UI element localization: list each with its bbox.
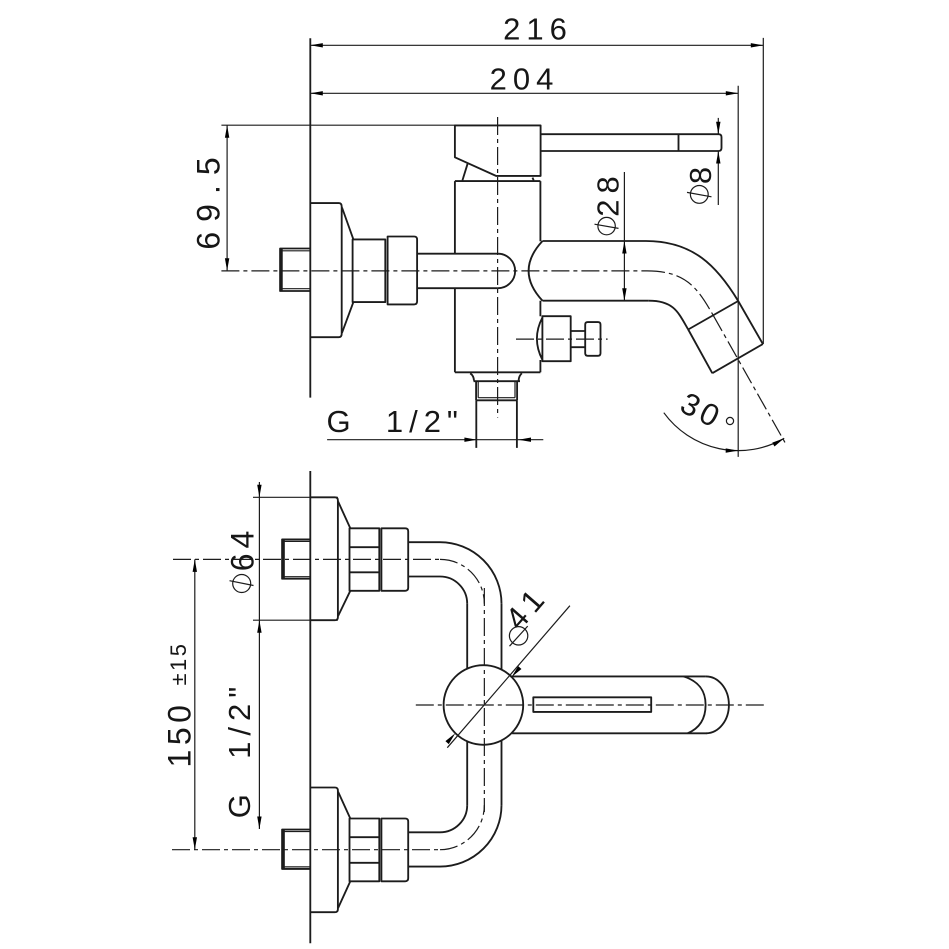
connecting rod to body <box>417 254 498 289</box>
lever handle bar <box>541 134 722 151</box>
bottom tube inner bend <box>440 805 467 832</box>
outlet tube <box>476 400 517 448</box>
spout joint line <box>688 301 738 330</box>
dimension phi8 line lower <box>717 151 719 205</box>
spout centerline slant extension <box>713 315 786 444</box>
top tube outer bend <box>440 542 502 604</box>
30 degree arrow at slant <box>772 436 785 446</box>
top fitting nipple <box>282 539 310 578</box>
dimension phi28 arrow up <box>622 241 626 254</box>
escutcheon cone upper diagonal <box>342 208 353 240</box>
phi64 arrow up <box>257 620 261 633</box>
top tube inner bend <box>440 577 467 604</box>
dimension 69.5 arrow bottom <box>225 258 229 271</box>
nipple chamfer line <box>281 249 283 292</box>
phi64 extension bottom <box>253 619 338 621</box>
vertical tube centerline <box>483 588 485 812</box>
handle bar end cap arc <box>706 676 729 733</box>
top fitting centerline <box>173 558 440 560</box>
svg-text:64: 64 <box>225 526 261 572</box>
outlet fillet left <box>470 373 474 380</box>
30 degree arc <box>664 413 784 451</box>
bottom fitting flange <box>310 788 338 913</box>
top nipple inner lines <box>284 541 310 576</box>
dimension phi8 arrow down <box>716 122 720 135</box>
dimension 69.5 top extension line <box>221 124 455 126</box>
main body <box>455 181 541 372</box>
bottom fitting centerline <box>172 849 440 851</box>
dimension 216 extension line / spout tip reference <box>762 38 764 344</box>
bottom fitting nipple <box>282 830 310 869</box>
bottom nipple chamfer <box>283 830 285 869</box>
rod rounded tip <box>498 254 515 289</box>
G 1/2 label line <box>327 439 543 441</box>
dimension 204 extension line / 30deg vertical reference <box>737 86 739 457</box>
wall line (front view) <box>309 471 311 943</box>
G 1/2 arrow right-pointing <box>464 438 477 442</box>
dimension phi8 line upper <box>717 118 719 134</box>
body vertical centerline <box>497 117 499 418</box>
bottom fitting hex facets <box>350 837 380 863</box>
svg-text:G 1/2": G 1/2" <box>222 681 257 818</box>
dimension phi28 symbol <box>595 217 619 234</box>
dimension 216 arrow right <box>751 43 764 47</box>
phi41 arrow lower <box>445 732 457 744</box>
side knob body <box>542 316 570 361</box>
wall line (side view) <box>309 38 311 397</box>
spout end right side <box>738 301 763 344</box>
spout outer curve <box>646 241 738 301</box>
top fitting hex section <box>350 528 380 591</box>
spout outlet face <box>712 344 763 373</box>
phi41 leader line <box>447 606 570 748</box>
bottom bend centerline arc <box>440 805 484 850</box>
top bend centerline arc <box>440 559 484 603</box>
outlet thread outer <box>476 381 517 400</box>
svg-text:28: 28 <box>591 170 626 216</box>
lever cap (top of body) <box>455 125 541 175</box>
svg-text:204: 204 <box>490 61 560 96</box>
top fitting cone diagonals <box>338 502 350 617</box>
dimension 204 arrow right <box>726 91 739 95</box>
svg-text:±15: ±15 <box>166 641 191 685</box>
spout bottom edge <box>543 300 649 302</box>
nipple thread inner lines <box>282 251 311 289</box>
bottom fitting cone diagonals <box>338 792 350 908</box>
phi41 symbol <box>509 626 527 646</box>
fitting threaded section <box>353 239 386 302</box>
phi64 / G1/2 shared dimension line <box>258 482 260 829</box>
30 degree arrow at vertical <box>726 448 739 452</box>
dimension 216 arrow left <box>310 43 323 47</box>
degree symbol <box>726 417 733 424</box>
dimension phi28 line <box>623 172 625 301</box>
lever cap right tick <box>533 178 534 181</box>
dimension 204 line <box>310 92 738 94</box>
outlet shoulder line <box>474 380 521 382</box>
handle bar front view top edge <box>510 675 705 677</box>
bottom fitting hex section <box>350 819 380 882</box>
spout inner curve <box>649 301 688 330</box>
escutcheon flange (side view) <box>310 203 341 337</box>
handle bar front view bottom edge <box>512 732 707 734</box>
svg-text:150: 150 <box>162 701 198 768</box>
body circle phi41 <box>444 665 524 745</box>
G 1/2 arrow left-pointing <box>519 438 532 442</box>
spout base cap arc <box>529 241 543 301</box>
spout top edge <box>543 240 647 242</box>
handle bar dome silhouette arc <box>684 676 706 733</box>
wall supply nipple (left, side view) <box>280 249 310 292</box>
dimension 204 arrow left <box>310 91 323 95</box>
phi64 extension top <box>253 496 338 498</box>
G1/2 arrow down at bottom nipple <box>257 817 261 830</box>
horizontal centerline through body circle <box>416 704 764 706</box>
side knob centerline <box>516 338 608 340</box>
svg-text:G 1/2": G 1/2" <box>327 404 464 439</box>
outlet thread inner <box>478 381 515 398</box>
vertical tube left edge <box>466 604 468 805</box>
top tube straight edges <box>408 542 440 576</box>
side knob cap <box>585 322 600 356</box>
side knob base arc <box>537 318 543 360</box>
spout end left side <box>688 330 712 374</box>
dimension phi28 arrow down <box>622 288 626 301</box>
top fitting hex facets <box>350 547 380 572</box>
dimension 69.5 arrow top <box>225 125 229 138</box>
dimension 150 arrow down <box>193 837 197 850</box>
bottom tube outer bend <box>440 805 502 867</box>
lever rod slot (front view) <box>533 697 651 712</box>
lever cap sliver line <box>462 164 467 181</box>
bottom tube straight edges <box>408 832 440 866</box>
svg-text:8: 8 <box>683 163 718 184</box>
top fitting flange <box>310 497 338 620</box>
fitting nut <box>388 237 418 305</box>
dimension phi8 arrow up <box>716 151 720 164</box>
side knob stem <box>571 331 585 347</box>
phi41 arrow upper <box>510 666 522 678</box>
bottom fitting nut <box>381 819 408 882</box>
vertical tube right edge <box>501 604 503 805</box>
dimension 69.5 line <box>226 125 228 271</box>
dimension 150 arrow up <box>193 559 197 572</box>
phi64 arrow down <box>257 485 261 498</box>
svg-text:216: 216 <box>503 12 573 47</box>
dimension phi8 symbol <box>687 186 712 204</box>
top fitting nut <box>381 528 408 591</box>
bottom nipple inner lines <box>284 832 310 867</box>
dimension 216 line <box>310 44 763 46</box>
escutcheon cone lower diagonal <box>342 302 353 333</box>
top nipple chamfer <box>283 539 285 578</box>
main horizontal centerline <box>221 270 647 272</box>
spout centerline curve <box>647 271 713 315</box>
outlet fillet right <box>519 373 522 380</box>
lever bar divider <box>678 134 680 151</box>
svg-text:69.5: 69.5 <box>191 147 227 249</box>
phi64 symbol <box>230 575 254 593</box>
dimension 150 line <box>194 559 196 849</box>
outlet thread end lines <box>478 397 515 399</box>
